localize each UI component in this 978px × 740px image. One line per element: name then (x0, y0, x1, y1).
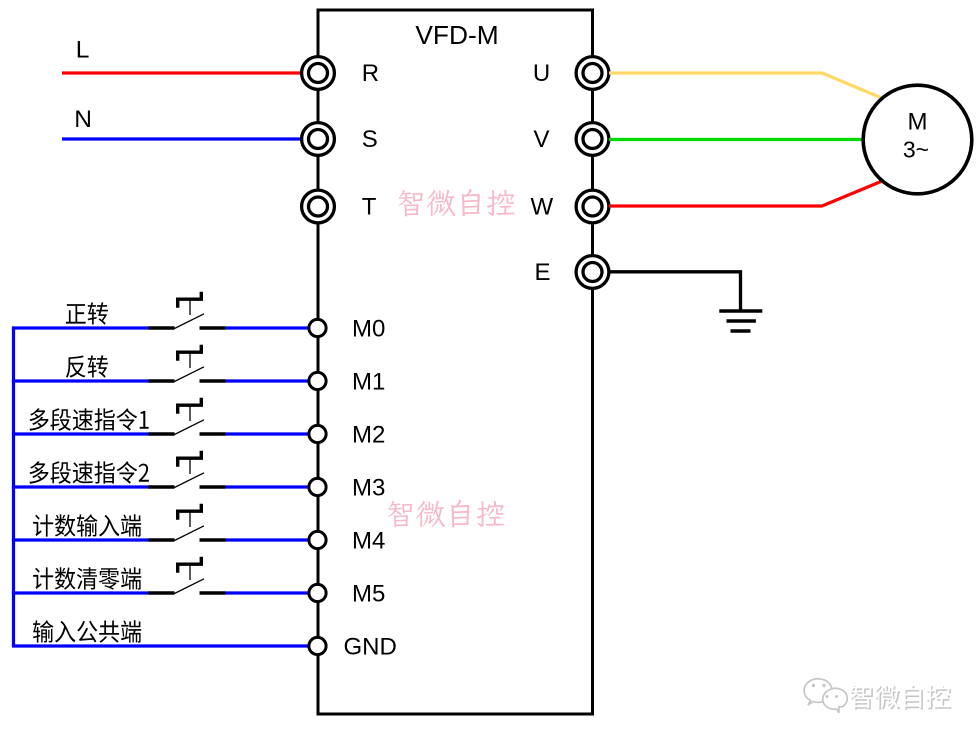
svg-text:T: T (362, 194, 377, 221)
svg-text:L: L (76, 37, 90, 64)
wire M4 branch right (blue) (226, 538, 309, 541)
wire GND branch (blue) (12, 644, 308, 647)
svg-text:W: W (530, 194, 553, 221)
wire L (red, line input) (62, 71, 303, 74)
switch S1 (正转) (149, 292, 226, 329)
wire M5 branch left (blue) (12, 591, 150, 594)
wire M5 branch right (blue) (226, 591, 309, 594)
terminal U (576, 57, 609, 90)
motor M 3-phase (863, 85, 972, 194)
wire U-motor (yellow) (609, 73, 881, 98)
wire M0 branch left (blue) (12, 326, 150, 329)
label 计数输入端 (33, 514, 141, 537)
label 多段速指令2 (29, 461, 148, 484)
terminal M1 (309, 372, 326, 389)
wire M0 branch right (blue) (226, 326, 309, 329)
svg-text:GND: GND (344, 634, 397, 661)
svg-text:S: S (362, 126, 378, 153)
wire V-motor (green) (609, 138, 863, 141)
switch S5 (计数输入端) (149, 504, 226, 541)
svg-text:M3: M3 (352, 475, 385, 502)
wire M2 branch left (blue) (12, 432, 150, 435)
wire M1 branch left (blue) (12, 379, 150, 382)
svg-text:V: V (533, 126, 549, 153)
label 计数清零端 (33, 567, 141, 590)
wire M3 branch left (blue) (12, 485, 150, 488)
svg-text:U: U (533, 60, 550, 87)
terminal GND (309, 637, 326, 654)
terminal E (576, 256, 609, 289)
svg-text:M: M (908, 109, 928, 136)
label 多段速指令1 (29, 408, 148, 431)
wire W-motor (red) (609, 182, 881, 207)
wire M4 branch left (blue) (12, 538, 150, 541)
wire M1 branch right (blue) (226, 379, 309, 382)
svg-text:N: N (74, 106, 92, 133)
svg-text:M1: M1 (352, 369, 385, 396)
svg-text:3~: 3~ (903, 137, 929, 163)
logo wechat icon (804, 679, 849, 715)
watermark 智微自控 (lower) (388, 500, 504, 528)
switch S3 (多段速指令1) (149, 398, 226, 435)
terminal T (302, 190, 335, 223)
svg-text:M2: M2 (352, 422, 385, 449)
ground symbol (719, 311, 762, 331)
terminal R (302, 57, 335, 90)
wire M2 branch right (blue) (226, 432, 309, 435)
bus wire common (blue) (12, 328, 15, 646)
VFD-M inverter outline (318, 10, 593, 714)
svg-text:VFD-M: VFD-M (415, 20, 498, 50)
terminal M4 (309, 531, 326, 548)
watermark 智微自控 (upper) (399, 189, 515, 217)
svg-text:M4: M4 (352, 528, 385, 555)
svg-text:M5: M5 (352, 581, 385, 608)
wire M3 branch right (blue) (226, 485, 309, 488)
switch S2 (反转) (149, 345, 226, 382)
switch S6 (计数清零端) (149, 557, 226, 594)
terminal M0 (309, 319, 326, 336)
label 正转 (66, 302, 108, 324)
terminal W (576, 190, 609, 223)
terminal M5 (309, 584, 326, 601)
terminal M2 (309, 425, 326, 442)
label 反转 (66, 355, 108, 377)
label 输入公共端 (33, 620, 141, 643)
svg-text:R: R (362, 60, 379, 87)
terminal M3 (309, 478, 326, 495)
terminal V (576, 123, 609, 156)
wire E-ground (black) (610, 272, 741, 310)
switch S4 (多段速指令2) (149, 451, 226, 488)
svg-text:M0: M0 (352, 316, 385, 343)
logo text 智微自控 (850, 685, 952, 710)
wire N (blue, neutral input) (62, 137, 303, 140)
terminal S (302, 123, 335, 156)
svg-text:E: E (534, 259, 550, 286)
